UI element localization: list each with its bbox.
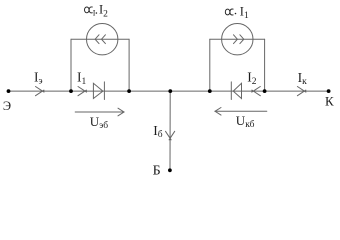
current source J1 arrow chevrons left [95, 35, 105, 44]
arrow I1 on wire [78, 87, 87, 96]
label current Iэ [34, 69, 43, 86]
diode VD1 triangle [93, 83, 103, 98]
label current I2 [247, 70, 256, 87]
wire base vertical Б [169, 91, 171, 169]
wire main horizontal Э-К [9, 90, 329, 92]
label Б terminal [153, 164, 161, 179]
label voltage Uэб [90, 114, 108, 131]
diode VD2 cathode bar [230, 82, 232, 100]
svg-text:Б: Б [153, 164, 161, 179]
current source J2 circle [222, 24, 253, 55]
node terminal Б [168, 168, 172, 172]
label Э terminal [3, 99, 11, 113]
wire left bridge top rail [71, 38, 129, 40]
node terminal К [327, 89, 331, 93]
wire left bridge right vertical [128, 39, 130, 91]
current source J1 circle [87, 24, 118, 55]
wire right bridge right vertical [264, 39, 266, 91]
diode VD2 triangle [233, 83, 241, 98]
label current I1 [77, 70, 87, 87]
wire left bridge left vertical [70, 39, 72, 91]
node junction right bridge right [263, 89, 267, 93]
diode VD1 cathode bar [103, 82, 105, 100]
svg-text:К: К [325, 94, 334, 109]
arrow Iк on wire [297, 87, 306, 96]
wire right bridge left vertical [209, 39, 211, 91]
arrow Iб down [166, 131, 175, 140]
label alpha * I1 over J2 [225, 4, 249, 21]
voltage arrow Uэб [75, 108, 124, 116]
current source J2 arrow chevrons right [234, 35, 244, 44]
arrow Iэ on wire [36, 87, 45, 96]
label current Iк [298, 70, 308, 87]
wire right bridge top rail [210, 38, 265, 40]
label К terminal [325, 94, 334, 109]
svg-text:Э: Э [3, 99, 11, 113]
arrow I2 on wire [252, 87, 260, 96]
node junction left bridge left [69, 89, 73, 93]
node junction right bridge left [208, 89, 212, 93]
node junction base [168, 89, 172, 93]
node junction left bridge right [127, 89, 131, 93]
label voltage Uкб [236, 113, 255, 130]
label current Iб [153, 123, 163, 140]
voltage arrow Uкб [215, 108, 267, 116]
svg-text:I: I [93, 8, 96, 17]
label alpha_I * I2 over J1 [85, 3, 109, 20]
node terminal Э [7, 89, 11, 93]
